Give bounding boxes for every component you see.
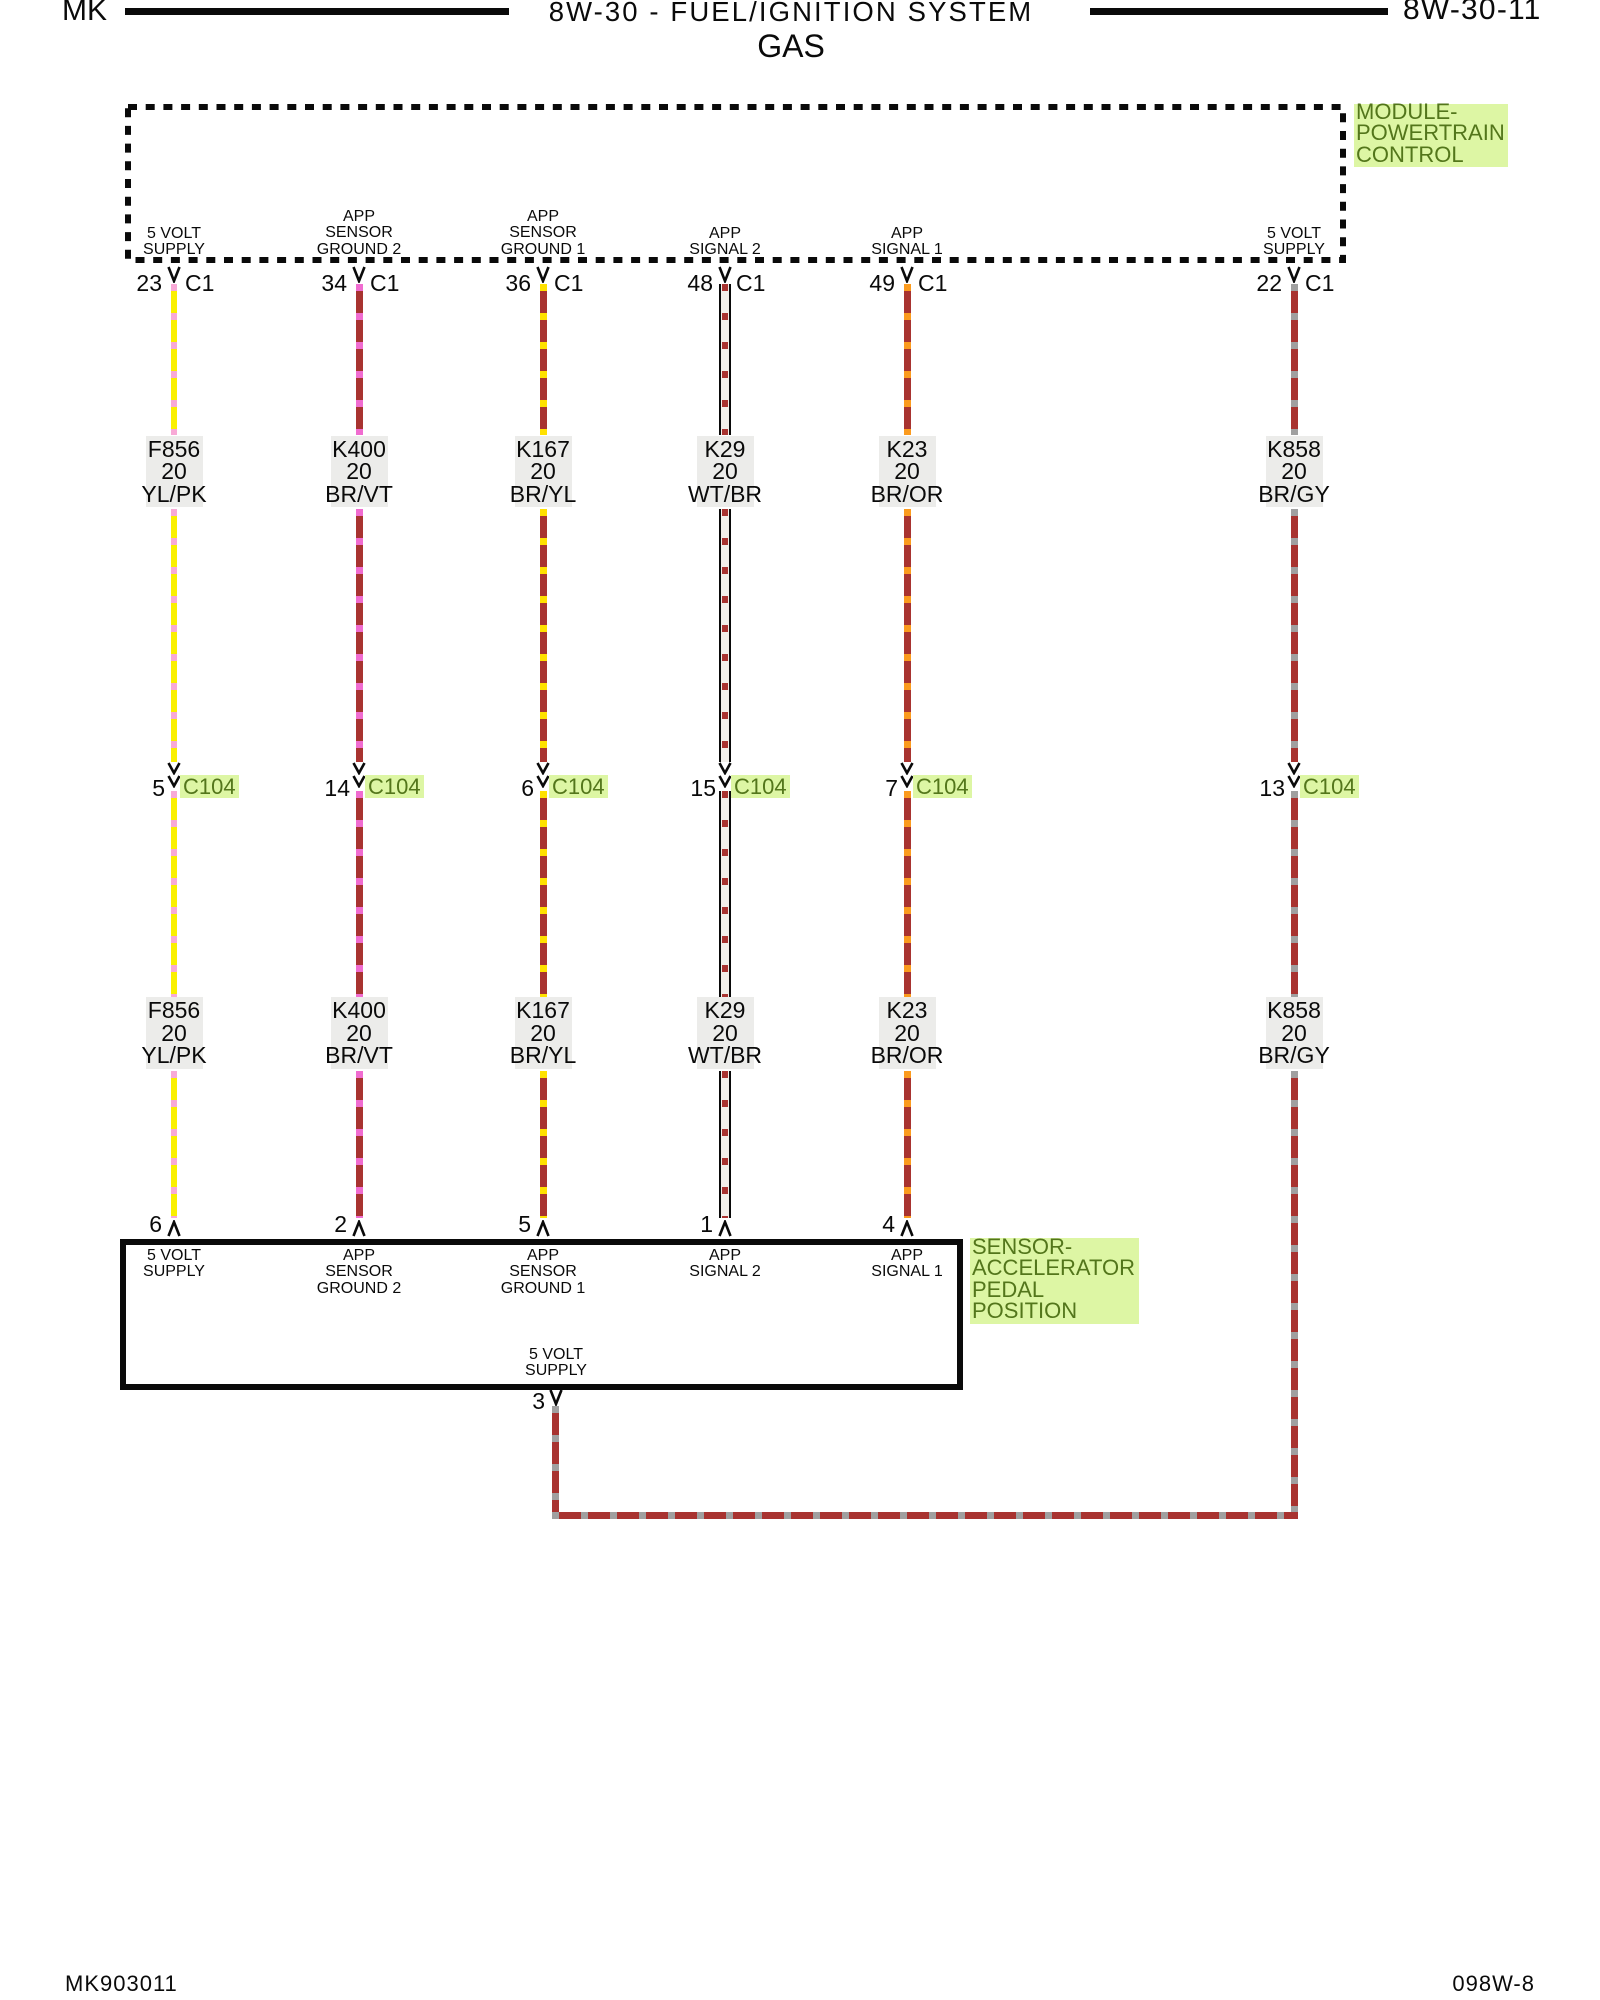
wire K23 20 BR/OR segment from upper label to C104: [904, 509, 911, 762]
footer sheet code MK903011: [65, 1973, 178, 1995]
wire K23 20 BR/OR segment from C104 to lower label: [904, 791, 911, 997]
wire K400 20 BR/VT segment from C104 to lower label: [356, 791, 363, 997]
in-line connector C104 pin 13 double chevron: [1287, 762, 1301, 775]
pin number 2: [237, 1215, 347, 1233]
module pin function label APP SENSOR GROUND 2: [317, 209, 401, 259]
wire label K858 20 BR/GY (upper): [1266, 436, 1323, 508]
connector C1 pin 23 chevron: [167, 266, 181, 283]
wire K167 20 BR/YL segment from PCM C1 to upper label: [540, 284, 547, 435]
module pin function label 5 VOLT SUPPLY: [143, 226, 205, 260]
wire K400 20 BR/VT segment from PCM C1 to upper label: [356, 284, 363, 435]
in-line connector C104 pin 7 double chevron: [900, 762, 914, 775]
sensor connector pin 2 chevron: [352, 1220, 366, 1237]
pin number 13: [1175, 779, 1285, 797]
footer drawing number 098W-8: [1452, 1973, 1535, 1995]
sensor pin function label APP SENSOR GROUND 1: [501, 1248, 585, 1298]
wire K858 20 BR/GY vertical segment below pin 3: [552, 1406, 559, 1512]
module pin function label APP SIGNAL 2: [689, 226, 760, 260]
pin number 14: [240, 779, 350, 797]
wire K23 20 BR/OR segment from PCM C1 to upper label: [904, 284, 911, 435]
module pin function label APP SENSOR GROUND 1: [501, 209, 585, 259]
pin number 36: [421, 274, 531, 292]
connector label C104 (highlighted): [731, 775, 790, 798]
connector label C1: [736, 274, 765, 292]
sensor connector pin 1 chevron: [718, 1220, 732, 1237]
header rule right: [1090, 8, 1388, 15]
in-line connector C104 pin 6 double chevron: [536, 762, 550, 775]
wire F856 20 YL/PK segment from PCM C1 to upper label: [171, 284, 177, 435]
wire K858 20 BR/GY segment from PCM C1 to upper label: [1291, 284, 1298, 435]
pin number 1: [603, 1215, 713, 1233]
wire label K23 20 BR/OR (upper): [879, 436, 936, 508]
header page number 8W-30-11: [1403, 0, 1542, 25]
pin number 5: [55, 779, 165, 797]
wire label K167 20 BR/YL (upper): [515, 436, 572, 508]
connector label C1: [1305, 274, 1334, 292]
wire K858 20 BR/GY segment below lower label: [1291, 1071, 1298, 1512]
wire K167 20 BR/YL segment from C104 to lower label: [540, 791, 547, 997]
header text MK: [62, 0, 107, 26]
wire K23 20 BR/OR segment below lower label: [904, 1071, 911, 1218]
module pin function label 5 VOLT SUPPLY: [1263, 226, 1325, 260]
header rule left: [125, 8, 509, 15]
wire K858 20 BR/GY segment from C104 to lower label: [1291, 791, 1298, 997]
connector label C1: [370, 274, 399, 292]
pin number 7: [788, 779, 898, 797]
pin number 6: [424, 779, 534, 797]
connector C1 pin 36 chevron: [536, 266, 550, 283]
wire label K29 20 WT/BR (upper): [697, 436, 754, 508]
pin number 48: [603, 274, 713, 292]
wire label K23 20 BR/OR (lower): [879, 997, 936, 1069]
wire label K167 20 BR/YL (lower): [515, 997, 572, 1069]
connector label C1: [554, 274, 583, 292]
sensor connector pin 5 chevron: [536, 1220, 550, 1237]
connector label C1: [918, 274, 947, 292]
wire K400 20 BR/VT segment from upper label to C104: [356, 509, 363, 762]
pin number 23: [52, 274, 162, 292]
in-line connector C104 pin 5 double chevron: [167, 762, 181, 775]
wire label F856 20 YL/PK (upper): [146, 436, 203, 508]
wire label K400 20 BR/VT (upper): [331, 436, 388, 508]
wire label K29 20 WT/BR (lower): [697, 997, 754, 1069]
module pin function label APP SIGNAL 1: [871, 226, 942, 260]
pin number 22: [1172, 274, 1282, 292]
wire label K400 20 BR/VT (lower): [331, 997, 388, 1069]
wire F856 20 YL/PK segment from C104 to lower label: [171, 791, 177, 997]
in-line connector C104 pin 14 double chevron: [352, 762, 366, 775]
pin number 34: [237, 274, 347, 292]
sensor connector pin 6 chevron: [167, 1220, 181, 1237]
wire F856 20 YL/PK segment from upper label to C104: [171, 509, 177, 762]
connector label C1: [185, 274, 214, 292]
pin number 15: [606, 779, 716, 797]
label SENSOR-ACCELERATOR PEDAL POSITION: [970, 1238, 1139, 1324]
header subtitle GAS: [757, 30, 825, 62]
pin number 4: [785, 1215, 895, 1233]
wire K29 20 WT/BR segment below lower label: [719, 1071, 731, 1218]
module-powertrain control (dashed component box): [122, 101, 1350, 269]
connector label C104 (highlighted): [180, 775, 239, 798]
sensor-accelerator pedal position (solid component box): [120, 1239, 963, 1390]
sensor pin function label APP SENSOR GROUND 2: [317, 1248, 401, 1298]
sensor pin function label APP SIGNAL 2: [689, 1248, 760, 1282]
connector label C104 (highlighted): [913, 775, 972, 798]
wire label F856 20 YL/PK (lower): [146, 997, 203, 1069]
sensor pin function label APP SIGNAL 1: [871, 1248, 942, 1282]
pin number 5: [421, 1215, 531, 1233]
wire K858 20 BR/GY horizontal segment: [552, 1512, 1298, 1519]
connector C1 pin 22 chevron: [1287, 266, 1301, 283]
pin number 49: [785, 274, 895, 292]
connector label C104 (highlighted): [365, 775, 424, 798]
wire K400 20 BR/VT segment below lower label: [356, 1071, 363, 1218]
connector C1 pin 48 chevron: [718, 266, 732, 283]
sensor pin function label 5 VOLT SUPPLY (pin 3): [525, 1347, 587, 1381]
pin number 3: [435, 1392, 545, 1410]
wire label K858 20 BR/GY (lower): [1266, 997, 1323, 1069]
label MODULE-POWERTRAIN CONTROL: [1354, 104, 1508, 167]
sensor connector pin 4 chevron: [900, 1220, 914, 1237]
pin number 6: [52, 1215, 162, 1233]
connector label C104 (highlighted): [1300, 775, 1359, 798]
wire K29 20 WT/BR segment from C104 to lower label: [719, 791, 731, 997]
wire K29 20 WT/BR segment from PCM C1 to upper label: [719, 284, 731, 435]
connector label C104 (highlighted): [549, 775, 608, 798]
wire K858 20 BR/GY segment from upper label to C104: [1291, 509, 1298, 762]
wire F856 20 YL/PK segment below lower label: [171, 1071, 177, 1218]
header title 8W-30 - FUEL/IGNITION SYSTEM: [549, 0, 1034, 26]
connector C1 pin 34 chevron: [352, 266, 366, 283]
sensor connector pin 3 chevron: [549, 1389, 563, 1406]
in-line connector C104 pin 15 double chevron: [718, 762, 732, 775]
connector C1 pin 49 chevron: [900, 266, 914, 283]
sensor pin function label 5 VOLT SUPPLY: [143, 1248, 205, 1282]
wire K29 20 WT/BR segment from upper label to C104: [719, 509, 731, 762]
wire K167 20 BR/YL segment from upper label to C104: [540, 509, 547, 762]
wire K167 20 BR/YL segment below lower label: [540, 1071, 547, 1218]
